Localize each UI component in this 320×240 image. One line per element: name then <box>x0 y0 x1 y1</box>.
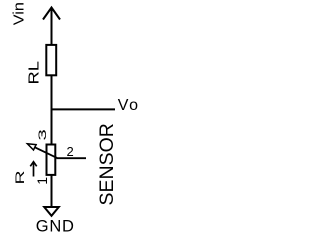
svg-text:1: 1 <box>34 177 50 185</box>
svg-text:2: 2 <box>67 144 74 159</box>
svg-text:3: 3 <box>37 129 49 140</box>
Vin supply arrow <box>43 8 60 45</box>
wire RL bottom to sensor top <box>51 75 53 145</box>
svg-text:Vin: Vin <box>11 2 27 25</box>
svg-text:R: R <box>14 170 27 184</box>
potentiometer wiper arrow <box>27 144 57 158</box>
potentiometer SENSOR body <box>47 145 56 175</box>
resistor RL <box>46 45 56 75</box>
svg-text:SENSOR: SENSOR <box>96 123 118 205</box>
wire wiper to pin 2 <box>57 157 87 159</box>
wire output node to Vo <box>51 108 116 110</box>
svg-text:Vo: Vo <box>118 97 140 114</box>
ground symbol <box>44 207 59 216</box>
wire sensor bottom to ground <box>51 175 53 207</box>
svg-text:GND: GND <box>36 217 75 235</box>
svg-text:RL: RL <box>25 61 42 84</box>
R increase annotation arrow <box>30 162 36 177</box>
